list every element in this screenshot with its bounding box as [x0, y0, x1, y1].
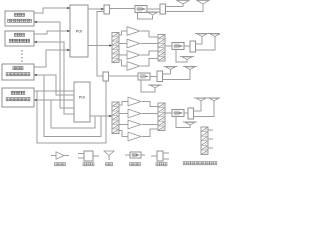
wire POI1 out to divider D0 [88, 8, 104, 10]
legend antenna symbol [104, 151, 114, 160]
power divider D2 [103, 72, 109, 81]
system box N [2, 64, 34, 80]
whip antenna W2 [197, 1, 209, 4]
amplifier A1 [127, 27, 140, 36]
wire D0 tap down to D2 [97, 12, 104, 77]
ellipsis between systems [21, 50, 23, 62]
power divider D4 [190, 41, 196, 52]
wire K2 to divider D4 [184, 45, 190, 47]
system box N+1 [2, 88, 34, 107]
ceiling antenna C6 [183, 67, 197, 70]
wire K4 to divider D5 [150, 75, 157, 77]
ceiling antenna C2 [195, 34, 209, 37]
wire LS1 to A3 [119, 54, 127, 56]
wire BN+1 out to POI2 [34, 90, 74, 92]
ceiling antenna C9 [207, 98, 221, 101]
wire A5 to RS2 [142, 102, 158, 107]
wire LS2 to A7 [119, 124, 128, 126]
wire LS1 to A1 [119, 31, 127, 35]
wire A8 to RS2 [142, 129, 158, 137]
wire LS2 to A8 [119, 131, 128, 137]
wire D0 to coupler K1 [110, 8, 136, 10]
wire B1 out to POI1 [34, 7, 70, 13]
wire loop under POI2 outer [37, 81, 106, 143]
ceiling antenna C3 [208, 34, 222, 37]
wire A2 to RS1 [141, 43, 158, 45]
legend coupler label [130, 163, 141, 166]
ceiling antenna C10 [183, 122, 197, 125]
wire A4 to RS1 [141, 59, 158, 67]
POI U2 [74, 82, 90, 122]
legend coupler symbol [125, 152, 145, 158]
wire LS2 to A6 [119, 113, 128, 115]
wire D5 to ceiling antenna C6 [163, 70, 191, 80]
ceiling antenna C5 [164, 67, 178, 70]
multiband combiner stack RS1 [158, 35, 165, 61]
wire D1 to whip antenna W2 [166, 4, 204, 12]
legend power divider label [156, 163, 167, 166]
svg-text:POI: POI [79, 95, 85, 99]
wire A7 to RS2 [142, 124, 158, 126]
wire A1 to RS1 [141, 31, 158, 37]
wire K2 tap to ceiling antenna C4 [176, 50, 187, 63]
coupler K3 [172, 110, 184, 117]
wire POI1 out to amplifier stack [88, 44, 112, 46]
legend multiband combiner label [183, 162, 217, 165]
multiband combiner stack LS1 [112, 33, 119, 63]
wire K3 to divider D3 [184, 112, 188, 114]
wire D5 to ceiling antenna C5 [163, 70, 171, 74]
wire LS2 to A5 [119, 102, 128, 106]
coupler K4 [138, 73, 150, 80]
coupler K2 [172, 43, 184, 50]
power divider D1 [160, 4, 166, 14]
coupler K1 [135, 6, 147, 13]
wire loop under POI2 inner [51, 100, 95, 128]
whip antenna W1 [177, 1, 189, 4]
amplifier A2 [127, 39, 140, 48]
wire D3 to ceiling antenna C9 [194, 101, 215, 117]
wire K3 tap to ceiling antenna C10 [176, 117, 190, 128]
wire loop under POI2 middle [44, 75, 101, 137]
system box 1 [5, 11, 34, 26]
legend power divider symbol [151, 151, 169, 161]
wire LS1 to A2 [119, 43, 127, 45]
wire A3 to RS1 [141, 51, 158, 55]
multiband combiner stack LS2 [112, 102, 119, 134]
legend amplifier label [55, 163, 66, 166]
wire POI2 to BN+1 return [34, 99, 74, 101]
amplifier A6 [128, 109, 141, 118]
POI U1 [70, 5, 88, 57]
legend combiner symbol [78, 151, 99, 161]
ceiling antenna C1 [146, 12, 160, 15]
wire BN out to POI1 [34, 49, 70, 67]
wire LS1 to A4 [119, 60, 127, 66]
power divider D5 [157, 71, 163, 82]
wire K1 to divider D1 [147, 8, 160, 10]
wire POI2 to B2 return [34, 41, 74, 114]
wire A6 to RS2 [142, 113, 158, 115]
wire B2 out to POI1 [34, 30, 70, 34]
wire D4 to ceiling antenna C2 [196, 37, 203, 44]
wire D1 to whip antenna W1 [166, 4, 184, 7]
wire POI2 to B1 return [34, 21, 74, 108]
amplifier A5 [128, 97, 141, 106]
ceiling antenna C4 [180, 57, 194, 60]
wire D4 to ceiling antenna C3 [196, 37, 216, 50]
system box 2 [5, 31, 34, 46]
wire D3 to ceiling antenna C8 [194, 101, 202, 111]
wire RS1 to coupler K2 [165, 45, 172, 47]
power divider D0 [104, 5, 110, 14]
power divider D3 [188, 108, 194, 119]
wire K4 tap to ceiling antenna C7 [141, 80, 155, 92]
amplifier A4 [127, 62, 140, 71]
wire POI2 to BN return [34, 74, 74, 95]
wire K1 tap to ceiling antenna C1 [138, 13, 153, 20]
amplifier A3 [127, 51, 140, 60]
wire RS2 to coupler K3 [165, 112, 172, 114]
ceiling antenna C7 [148, 85, 162, 88]
ceiling antenna C8 [194, 98, 208, 101]
wire D2 to coupler K4 [109, 75, 139, 77]
wire POI2 out to lower stack [90, 115, 112, 117]
amplifier A8 [128, 132, 141, 141]
legend multiband combiner symbol [201, 127, 213, 155]
legend antenna label [106, 163, 113, 166]
legend combiner label [83, 163, 94, 166]
multiband combiner stack RS2 [158, 103, 165, 131]
svg-text:POI: POI [76, 30, 83, 34]
amplifier A7 [128, 120, 141, 129]
legend amplifier symbol [51, 152, 69, 159]
